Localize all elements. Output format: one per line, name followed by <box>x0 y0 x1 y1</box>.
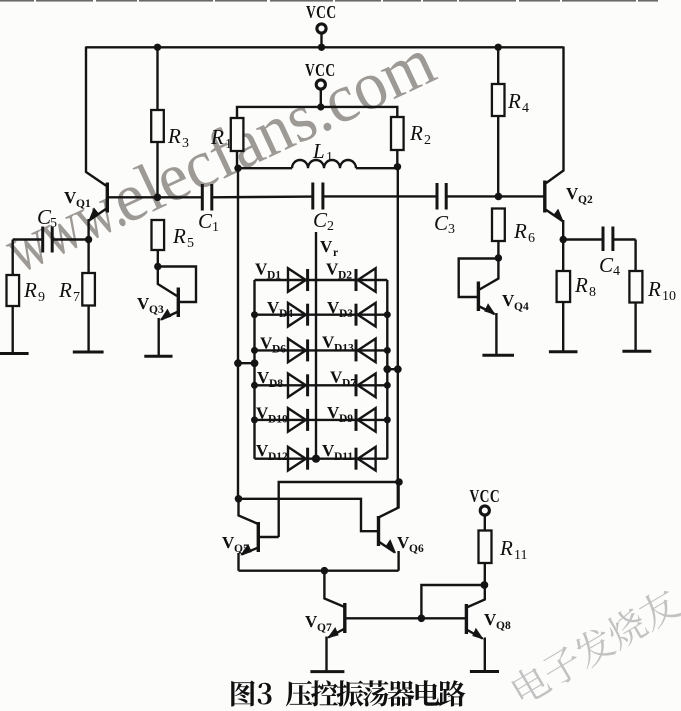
svg-text:8: 8 <box>589 285 596 300</box>
svg-text:Q7: Q7 <box>317 622 332 634</box>
varactor VD11 <box>358 447 376 471</box>
svg-text:3: 3 <box>182 136 189 151</box>
varactor VD3 <box>358 303 376 327</box>
resistor R9 <box>7 240 46 354</box>
VCC terminal 2 <box>305 60 336 107</box>
node dot L1 left <box>234 165 241 172</box>
transistor VQ8 (diode-connected) <box>466 585 511 640</box>
svg-text:7: 7 <box>73 290 80 305</box>
transistor VQ6 <box>379 482 424 555</box>
tie left rail to bracket <box>238 362 255 364</box>
svg-text:Q1: Q1 <box>76 198 91 210</box>
wire R1 bottom <box>236 151 238 169</box>
torn top edge line <box>0 0 658 2</box>
varactor VD6 <box>288 339 306 363</box>
wire diode row 1 <box>255 279 388 281</box>
ground VQ4 <box>482 354 514 357</box>
varactor VD8 <box>288 374 306 398</box>
resistor R2 <box>391 117 431 150</box>
node dot VCC2/bracket <box>317 103 324 110</box>
resistor R3 <box>151 47 189 197</box>
capacitor C1 <box>198 184 219 235</box>
svg-text:r: r <box>333 247 338 259</box>
watermark 电子发烧友 <box>508 584 681 707</box>
ground R9 <box>0 352 29 355</box>
wire right drop to VQ2 collector <box>545 47 564 185</box>
node dot VQ2 base / R4 / R6 <box>495 193 503 201</box>
varactor VD1 <box>288 268 306 292</box>
svg-text:D7: D7 <box>342 378 356 390</box>
svg-text:2: 2 <box>424 133 431 148</box>
svg-text:Q8: Q8 <box>496 620 511 632</box>
capacitor C2 <box>313 183 334 235</box>
svg-text:Q2: Q2 <box>578 194 593 206</box>
wire C2 to C3 <box>323 195 437 197</box>
svg-text:D10: D10 <box>268 414 288 426</box>
junction dots row y=419.9 <box>251 416 258 423</box>
wire C1 to C2 <box>212 195 313 198</box>
transistor VQ7 <box>305 571 345 639</box>
junction dots row y=350.4 <box>251 347 258 354</box>
wire VQ2 emitter down <box>562 220 564 271</box>
node dot R6/VQ4 <box>495 254 502 261</box>
node dot emitter tap <box>321 567 329 575</box>
svg-text:1: 1 <box>212 220 219 235</box>
node dot top-rail/R3 <box>154 44 161 51</box>
wire top rail <box>86 46 564 48</box>
svg-text:V: V <box>320 237 333 256</box>
resistor R5 <box>152 220 195 267</box>
varactor VD10 <box>288 408 306 432</box>
wire left tank rail <box>237 168 239 499</box>
wire inner-right bracket <box>386 280 388 459</box>
svg-text:D1: D1 <box>267 270 281 282</box>
inductor L1 <box>238 139 397 168</box>
resistor R11 <box>479 531 528 586</box>
svg-text:C: C <box>313 208 328 232</box>
svg-text:R: R <box>409 121 423 145</box>
VCC terminal 1 <box>306 2 337 47</box>
ground VQ7 <box>310 670 344 673</box>
svg-text:4: 4 <box>522 101 529 116</box>
varactor VD2 <box>358 268 376 292</box>
wire lower cross (VQ6 base to VQ5 collector) <box>239 499 379 531</box>
svg-text:C: C <box>599 253 614 277</box>
wire inner-left bracket <box>253 280 255 459</box>
ground R8 <box>549 350 578 353</box>
svg-text:Q3: Q3 <box>149 304 164 316</box>
wire C3 to VQ2 base <box>446 195 545 197</box>
node dot top-rail/R4 <box>495 44 502 51</box>
wire VQ5 emitter down <box>237 553 239 571</box>
node dot L1 right <box>394 163 401 170</box>
svg-text:R: R <box>23 278 37 302</box>
svg-text:Q6: Q6 <box>409 543 424 555</box>
wire right tank rail <box>397 167 399 508</box>
wire VQ4 emitter down <box>495 313 497 355</box>
node dot top-rail/VCC <box>318 44 325 51</box>
svg-text:R: R <box>167 124 181 148</box>
ground R10 <box>622 350 651 353</box>
wire VQ8 emitter down <box>484 638 486 672</box>
svg-text:6: 6 <box>528 231 535 246</box>
ground R7 <box>73 351 104 354</box>
wire diode row 3 <box>255 349 388 351</box>
svg-text:10: 10 <box>662 289 676 304</box>
transistor VQ2 <box>545 181 593 223</box>
wire diode row 4 <box>255 384 388 386</box>
varactor VD13 <box>358 339 376 363</box>
wire diode row 6 <box>255 458 388 460</box>
wire left drop to VQ1 collector <box>86 47 107 187</box>
VCC terminal 3 <box>470 486 501 531</box>
junction dots row y=314.7 <box>251 311 258 318</box>
wire VQ1 emitter down <box>87 219 89 273</box>
svg-text:R: R <box>507 89 521 113</box>
svg-text:11: 11 <box>514 548 527 563</box>
wire R2 bottom <box>396 150 398 168</box>
varactor VD9 <box>358 408 376 432</box>
svg-text:5: 5 <box>187 236 194 251</box>
caption 图3 压控振荡器电路 <box>231 680 465 706</box>
svg-text:R: R <box>58 278 72 302</box>
wire diode row 2 <box>255 314 388 316</box>
svg-text:D9: D9 <box>339 413 353 425</box>
node dot VQ1 base <box>154 194 162 202</box>
svg-text:1: 1 <box>225 137 232 152</box>
svg-text:R: R <box>499 536 513 560</box>
transistor VQ4 (diode-connected) <box>459 259 529 316</box>
svg-text:4: 4 <box>613 264 620 279</box>
wire VQ1 base to C1 <box>158 196 203 198</box>
resistor R10 <box>629 240 676 352</box>
capacitor C4 <box>563 227 635 280</box>
resistor R6 <box>492 209 535 259</box>
svg-text:R: R <box>647 277 661 301</box>
wire diode row 5 <box>255 419 388 421</box>
resistor R1 <box>210 118 243 152</box>
svg-text:Q5: Q5 <box>234 543 249 555</box>
svg-text:Q4: Q4 <box>514 301 529 313</box>
svg-text:VCC: VCC <box>470 486 501 506</box>
watermark www.elecfans.com <box>0 23 446 288</box>
wire VQ6 emitter down <box>397 551 399 571</box>
junction dots row y=385.3 <box>251 382 258 389</box>
wire base line VQ7-VQ8 <box>345 617 466 619</box>
wire VQ8 base-collector loop <box>421 585 484 618</box>
svg-text:D11: D11 <box>334 451 353 463</box>
svg-text:C: C <box>198 209 213 233</box>
node Vr control line <box>316 232 338 459</box>
wire tank top bracket <box>237 107 397 118</box>
svg-text:D12: D12 <box>268 451 288 463</box>
varactor VD12 <box>288 447 306 471</box>
capacitor C3 <box>434 183 455 237</box>
svg-text:D6: D6 <box>272 344 286 356</box>
ground VQ3 <box>144 355 172 358</box>
svg-text:9: 9 <box>38 290 45 305</box>
svg-text:R: R <box>513 219 527 243</box>
svg-text:3: 3 <box>448 222 455 237</box>
wire common emitter line <box>239 570 399 572</box>
svg-text:D3: D3 <box>339 308 353 320</box>
node dot R11 bottom <box>481 581 489 589</box>
svg-text:R: R <box>172 224 186 248</box>
svg-text:VCC: VCC <box>306 2 337 22</box>
wire upper bracket (VQ5 base to VQ6 collector) <box>279 482 399 537</box>
svg-text:D2: D2 <box>338 270 352 282</box>
svg-text:D8: D8 <box>269 378 283 390</box>
transistor VQ5 <box>222 499 279 556</box>
svg-text:2: 2 <box>327 219 334 234</box>
node dot base line <box>418 615 426 623</box>
node dot Vr bottom <box>312 455 320 463</box>
svg-text:C: C <box>434 211 449 235</box>
wire VQ3 emitter down <box>157 318 159 356</box>
svg-text:D13: D13 <box>334 343 354 355</box>
wire VQ7 emitter down <box>325 637 327 672</box>
resistor R8 <box>557 271 596 352</box>
svg-text:R: R <box>574 273 588 297</box>
svg-text:VCC: VCC <box>305 60 336 80</box>
tie right bracket to rail <box>387 368 398 370</box>
varactor VD7 <box>358 374 376 398</box>
node dot R5/VQ3 <box>154 263 161 270</box>
node dot emitter/C5 <box>85 236 92 243</box>
transistor VQ1 <box>64 183 158 222</box>
svg-text:R: R <box>210 125 224 149</box>
capacitor C5 <box>13 205 89 253</box>
svg-text:D4: D4 <box>279 308 293 320</box>
resistor R4 <box>492 47 529 196</box>
node dot VQ2 emitter <box>560 236 567 243</box>
varactor VD4 <box>288 303 306 327</box>
ground VQ8 <box>470 670 499 673</box>
transistor VQ3 (diode-connected) <box>137 267 196 321</box>
resistor R7 <box>58 273 95 352</box>
